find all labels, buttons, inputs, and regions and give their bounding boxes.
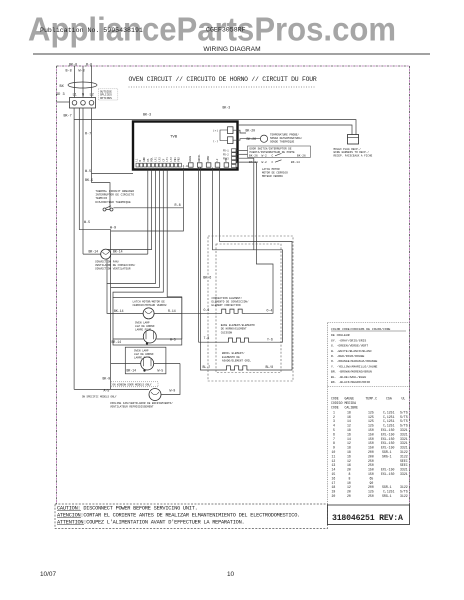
oven lamp L1 [143,330,156,343]
svg-text:BL/8: BL/8 [266,365,274,369]
wire R-8 riser to breaker and W-9 bus [111,168,184,232]
svg-text:ASADO/ELEMENT GRIL: ASADO/ELEMENT GRIL [222,359,251,363]
svg-text:SGR-1: SGR-1 [382,450,392,454]
svg-text:UL: UL [402,397,406,401]
wire latch motor leads [113,312,143,314]
lamp assembly box 1 [113,298,182,346]
svg-text:ELEMENTO DE CONVECCION/: ELEMENTO DE CONVECCION/ [212,300,249,304]
svg-text:14: 14 [347,437,351,441]
cavity outer dashed box [208,236,293,381]
svg-text:14: 14 [332,468,336,472]
svg-text:CONVECTION FAN/: CONVECTION FAN/ [95,260,120,264]
svg-text:CALIBRE: CALIBRE [345,405,358,409]
svg-text:3122: 3122 [400,450,408,454]
svg-text:10: 10 [347,481,351,485]
svg-text:S/TS: S/TS [400,419,408,423]
board right pin stack [232,149,237,168]
svg-text:RECEP. FAISCEAUX A FICHE: RECEP. FAISCEAUX A FICHE [334,155,373,158]
svg-text:THERMAL CIRCUIT BREAKER: THERMAL CIRCUIT BREAKER [95,190,134,193]
svg-text:18: 18 [347,428,351,432]
svg-text:200: 200 [368,485,374,489]
svg-text:5: 5 [333,428,335,432]
svg-text:OPTIONS: OPTIONS [100,97,112,100]
svg-text:ON WINDOW DOOR MODELS ONLY: ON WINDOW DOOR MODELS ONLY [113,384,153,387]
svg-text:12: 12 [347,424,351,428]
svg-text:150: 150 [368,472,374,476]
svg-text:W-9: W-9 [170,388,176,392]
svg-text:GAUGE: GAUGE [345,397,355,401]
svg-text:4: 4 [333,424,335,428]
svg-text:C: C [272,161,274,164]
board bottom pin strip small (P1) [136,163,181,167]
svg-text:SGR-1: SGR-1 [382,485,392,489]
svg-text:BK-26: BK-26 [297,155,306,158]
wire L2 drop from top border [91,66,93,98]
svg-text:CONV: CONV [207,155,210,161]
svg-text:O. -ORANGE/NARANJA/ORANGE: O. -ORANGE/NARANJA/ORANGE [331,359,378,363]
wire pin2 staircase [107,170,152,284]
svg-text:SEEC: SEEC [400,463,408,467]
wire W-9 bus [79,230,110,390]
wire probe BK-20 [233,130,246,133]
wire L1 drop from top border [74,66,76,98]
svg-text:ELEMENTO DE: ELEMENTO DE [222,356,240,359]
wire branch to conv fan [83,253,101,255]
svg-text:BR-14: BR-14 [112,340,122,344]
svg-text:150: 150 [368,428,374,432]
svg-text:N: N [82,94,84,98]
svg-text:CUISSON: CUISSON [221,331,233,334]
wire cooling fan right [161,364,180,395]
oven lamp L2 [141,357,154,370]
svg-text:DE COULEUR: DE COULEUR [331,333,350,337]
svg-text:(+): (+) [213,129,218,133]
svg-text:8: 8 [349,476,351,480]
svg-text:EXL-150: EXL-150 [381,428,394,432]
svg-text:10: 10 [332,450,336,454]
svg-text:DE HORNO/ELEMENT: DE HORNO/ELEMENT [221,327,247,331]
svg-text:C,1251: C,1251 [383,490,395,494]
svg-text:TEMP.C: TEMP.C [366,397,378,401]
latch motor LM1 [143,308,154,319]
svg-text:Y. -YELLOW/AMARILLO/JAUNE: Y. -YELLOW/AMARILLO/JAUNE [331,364,378,368]
svg-text:ELEMENT CONVECTION: ELEMENT CONVECTION [212,304,241,307]
convection fan motor CF1 [101,249,111,259]
svg-text:250: 250 [368,494,374,498]
svg-text:12: 12 [332,459,336,463]
cable clamp BX [68,82,97,88]
svg-text:P5-3: P5-3 [223,157,229,160]
wire BK-7 run to molex [74,120,356,135]
svg-text:250: 250 [368,459,374,463]
svg-text:CODE: CODE [331,405,339,409]
broil element EL3 [224,366,249,370]
wire L2 drop R-7 [91,108,93,183]
molex plug MP1 [348,135,359,145]
svg-text:EXL-150: EXL-150 [381,446,394,450]
svg-text:7: 7 [333,437,335,441]
svg-text:BK-5: BK-5 [85,179,93,183]
svg-text:O-4: O-4 [267,309,273,313]
svg-text:A-5: A-5 [104,388,110,392]
terminal L2 [89,101,94,106]
svg-text:BK-3: BK-3 [223,105,231,109]
svg-text:W-9: W-9 [110,227,116,231]
svg-text:TVB: TVB [170,136,178,140]
svg-text:VENTILATEUR REFROIDISSEMENT: VENTILATEUR REFROIDISSEMENT [110,405,154,408]
svg-text:PB2: PB2 [178,157,181,162]
svg-text:SONDE THERMIQUE: SONDE THERMIQUE [270,140,295,143]
svg-text:MDL: MDL [151,157,154,162]
svg-text:VENTILADOR DE CONVECCION/: VENTILADOR DE CONVECCION/ [95,263,136,267]
svg-text:W-8: W-8 [79,70,85,74]
header rule [33,53,430,55]
svg-text:G. -GREEN/VERDE/VERT: G. -GREEN/VERDE/VERT [331,344,368,348]
board right pin labels [223,150,229,161]
svg-text:19: 19 [332,490,336,494]
wire breaker to riser [113,207,183,209]
svg-text:P5-1: P5-1 [223,150,229,153]
svg-text:20: 20 [347,494,351,498]
svg-text:BROIL ELEMENT/: BROIL ELEMENT/ [222,351,245,355]
svg-text:LF1: LF1 [155,157,158,162]
svg-text:W-5: W-5 [85,170,91,174]
svg-text:LF2: LF2 [158,157,161,162]
svg-text:R-8: R-8 [86,64,92,68]
svg-text:BK-3: BK-3 [143,114,151,118]
svg-text:R. -RED/ROJO/ROUGE: R. -RED/ROJO/ROUGE [331,354,365,358]
door switch symbol [275,153,282,155]
wire N2 drop below block [82,108,84,254]
svg-text:200: 200 [368,454,374,458]
svg-text:EXL-150: EXL-150 [381,468,394,472]
svg-text:S/TS: S/TS [400,424,408,428]
svg-text:GY. -GRAY/GRIS/GRIS: GY. -GRAY/GRIS/GRIS [331,338,366,342]
svg-text:L1: L1 [73,94,77,98]
svg-text:DISJONCTEUR THERMIQUE: DISJONCTEUR THERMIQUE [95,201,131,204]
svg-text:BK-8: BK-8 [69,64,77,68]
svg-text:150: 150 [368,441,374,445]
svg-text:17: 17 [332,481,336,485]
svg-text:J-0: J-0 [183,165,189,168]
wire pin5 staircase [113,170,163,298]
svg-text:ATTENTION:COUPEZ L'ALIMENTATIO: ATTENTION:COUPEZ L'ALIMENTATION AVANT D'… [57,519,244,525]
svg-text:EXL-150: EXL-150 [381,432,394,436]
wire A-5 run to cooling fan [74,388,149,390]
svg-text:BK. -BLACK/NEGRO/NOIR: BK. -BLACK/NEGRO/NOIR [331,380,370,384]
svg-text:O-6: O-6 [204,308,210,312]
svg-text:150: 150 [368,437,374,441]
svg-text:125: 125 [368,490,374,494]
note 3-wire splice option box [98,89,118,100]
svg-text:BK-6: BK-6 [203,276,211,280]
svg-text:SRG-1: SRG-1 [382,454,392,458]
svg-text:ATENCION:CORTAR EL CORIENTE AN: ATENCION:CORTAR EL CORIENTE ANTES DE REA… [57,512,300,518]
svg-text:GD 3: GD 3 [56,93,65,97]
wire board top to molex [238,125,353,135]
svg-text:CONVECTION ELEMENT/: CONVECTION ELEMENT/ [212,296,243,300]
wire long drop to broil element [200,168,224,371]
wire W-5 run to board [92,173,134,175]
svg-text:3321: 3321 [400,472,408,476]
svg-text:8: 8 [349,472,351,476]
svg-text:W-2: W-2 [262,155,267,158]
svg-text:INTERRUPTOR DE CIRCUITO: INTERRUPTOR DE CIRCUITO [95,194,134,197]
svg-text:BL. -BLUE/AZUL/BLEU: BL. -BLUE/AZUL/BLEU [331,375,366,379]
svg-text:LT1: LT1 [166,157,169,162]
svg-text:3: 3 [333,419,335,423]
wire BK-6 long drop to bake element [199,168,227,343]
terminal N [81,101,86,106]
svg-text:B-8: B-8 [66,70,72,74]
svg-text:16: 16 [347,454,351,458]
svg-text:C,1251: C,1251 [383,410,395,414]
wire L1 drop below block [73,108,75,389]
svg-text:3122: 3122 [400,494,408,498]
svg-text:EXL-150: EXL-150 [381,472,394,476]
wire latch row to convection element [182,312,220,314]
svg-text:S/TS: S/TS [400,410,408,414]
svg-text:12: 12 [347,485,351,489]
svg-text:COOLING FAN/VENTILADOR DE ENFR: COOLING FAN/VENTILADOR DE ENFRIAMIENTO/ [110,401,173,405]
svg-text:TEMPERATURE PROBE/: TEMPERATURE PROBE/ [270,133,299,137]
svg-text:EXL-150: EXL-150 [381,441,394,445]
svg-text:16: 16 [347,415,351,419]
svg-text:BK-14: BK-14 [113,249,123,253]
svg-text:OVEN CIRCUIT // CIRCUITO DE HO: OVEN CIRCUIT // CIRCUITO DE HORNO // CIR… [129,76,317,83]
svg-text:CGEF3058RF: CGEF3058RF [206,27,246,34]
svg-text:12: 12 [347,441,351,445]
svg-text:1: 1 [333,410,335,414]
svg-text:COLOR CODE/CODIGOS DE COLOR/CO: COLOR CODE/CODIGOS DE COLOR/CODE [331,327,391,331]
svg-text:BROIL: BROIL [198,154,201,162]
thermal circuit breaker symbol [103,206,113,211]
svg-text:WIRING DIAGRAM: WIRING DIAGRAM [203,46,260,53]
board pin labels (vertical) [135,154,236,162]
svg-text:20: 20 [332,494,336,498]
cooling fan CLF [149,389,161,401]
svg-text:15: 15 [332,472,336,476]
svg-text:MOTEUR VERROU: MOTEUR VERROU [262,175,283,178]
svg-text:PB1: PB1 [174,157,177,162]
wire N drop from top border [82,66,84,98]
svg-text:BAKE ELEMENT/ELEMENTO: BAKE ELEMENT/ELEMENTO [221,323,255,327]
svg-text:3321: 3321 [400,441,408,445]
svg-text:W-5: W-5 [84,221,90,225]
cavity inner dashed box [216,244,281,373]
svg-text:18: 18 [332,485,336,489]
svg-text:13: 13 [332,463,336,467]
svg-text:125: 125 [368,419,374,423]
svg-text:11: 11 [332,454,336,458]
lamp assembly box 2 [125,347,166,374]
svg-text:LATCH MOTOR/MOTOR DE: LATCH MOTOR/MOTOR DE [133,299,166,303]
svg-text:W-5: W-5 [170,337,176,341]
door switch box SW1 [248,146,311,157]
svg-text:150: 150 [368,432,374,436]
svg-text:3321: 3321 [400,437,408,441]
svg-text:9: 9 [333,446,335,450]
svg-text:C,1251: C,1251 [383,419,395,423]
svg-text:3321: 3321 [400,468,408,472]
svg-text:CERROJO/MOTEUR VERROU: CERROJO/MOTEUR VERROU [133,303,167,307]
svg-text:PUERTA/INTERRUPTEUR DE PORTE: PUERTA/INTERRUPTEUR DE PORTE [250,150,296,154]
svg-text:SEEC: SEEC [400,459,408,463]
svg-text:S/TS: S/TS [400,415,408,419]
svg-text:GND: GND [143,157,146,162]
svg-text:R-14: R-14 [168,309,176,313]
svg-text:C,1251: C,1251 [383,415,395,419]
svg-text:125: 125 [368,424,374,428]
svg-text:3321: 3321 [400,428,408,432]
wire lamp1 leads [113,338,143,340]
svg-text:BL-7: BL-7 [203,365,211,369]
svg-text:BK-14: BK-14 [114,309,124,313]
svg-text:W-5: W-5 [158,369,164,373]
svg-text:Publication No. 5995438191: Publication No. 5995438191 [40,27,143,34]
convection element EL1 [220,309,246,313]
wire lamp2 leads [111,363,141,365]
svg-text:EXL-150: EXL-150 [381,437,394,441]
terminal L1 [72,101,77,106]
color code box [328,323,410,387]
wire pin4 staircase [111,170,160,288]
svg-text:BR-14: BR-14 [89,249,99,253]
svg-text:18: 18 [347,450,351,454]
board bottom pin strip large (P2) [189,163,238,167]
svg-text:C: C [272,155,274,158]
svg-text:8: 8 [333,441,335,445]
svg-text:3321: 3321 [400,446,408,450]
svg-text:(-): (-) [213,139,218,143]
svg-text:3321: 3321 [400,432,408,436]
svg-text:250: 250 [368,463,374,467]
svg-text:2: 2 [333,415,335,419]
svg-text:65: 65 [370,476,374,480]
svg-text:3122: 3122 [400,454,408,458]
svg-text:P5-2: P5-2 [223,154,229,157]
latch switch symbol [275,160,282,162]
svg-text:6: 6 [333,432,335,436]
svg-text:TERMICO: TERMICO [95,197,107,200]
svg-text:BR-14: BR-14 [127,369,137,373]
svg-text:BK-7: BK-7 [64,115,72,119]
svg-text:125: 125 [368,410,374,414]
svg-text:20: 20 [347,490,351,494]
svg-text:CSA: CSA [386,397,392,401]
svg-text:16: 16 [332,476,336,480]
svg-text:L2: L2 [90,94,94,98]
svg-text:C,1251: C,1251 [383,424,395,428]
svg-text:20: 20 [347,468,351,472]
svg-text:318046251 REV:A: 318046251 REV:A [332,514,403,523]
svg-text:CODE: CODE [331,397,339,401]
svg-text:BK-14: BK-14 [291,161,300,164]
bake element EL2 [226,338,250,342]
svg-text:125: 125 [368,415,374,419]
svg-text:R-7: R-7 [85,133,91,137]
terminal block TB1 [70,98,96,109]
svg-text:16: 16 [347,432,351,436]
svg-text:MOLEX PLUG RECP./: MOLEX PLUG RECP./ [334,147,362,151]
svg-text:10: 10 [227,571,235,578]
part number box 318046251 REV:A [328,505,410,525]
wire drop to bake right staircase [213,168,283,343]
svg-text:SRG-1: SRG-1 [382,494,392,498]
board probe connector squares [228,127,234,144]
svg-text:BK-26: BK-26 [249,155,258,158]
svg-text:10/07: 10/07 [40,571,56,578]
main diagram border [57,66,410,505]
svg-text:16: 16 [347,463,351,467]
wire probe BK-26 [233,139,261,141]
svg-text:14: 14 [347,419,351,423]
svg-text:7-8: 7-8 [204,336,210,340]
wire drop to broil right staircase [220,168,292,371]
svg-text:18: 18 [347,446,351,450]
wire conv fan right [111,253,148,255]
svg-text:Y-6: Y-6 [267,338,273,342]
svg-text:3122: 3122 [400,485,408,489]
svg-text:12: 12 [347,459,351,463]
svg-text:SONDA DETERMINATURA/: SONDA DETERMINATURA/ [270,136,303,140]
svg-text:150: 150 [368,468,374,472]
svg-text:18: 18 [347,410,351,414]
svg-text:MEDIDA: MEDIDA [345,401,357,405]
wire BK-5 run [92,183,111,210]
svg-text:R-8: R-8 [175,204,181,208]
wire door switch drop right to conv right [245,162,273,313]
svg-text:90: 90 [370,481,374,485]
svg-text:BAKE: BAKE [189,155,192,161]
svg-text:W-2: W-2 [262,161,267,164]
svg-text:BK-26: BK-26 [247,137,257,141]
wires door switch rows [236,149,248,151]
svg-text:W. -WHITE/BLANCO/BLANC: W. -WHITE/BLANCO/BLANC [331,349,372,353]
svg-text:ON SPECIFIC MODELS ONLY: ON SPECIFIC MODELS ONLY [82,396,117,399]
window door note box [111,382,158,387]
wire pin3 staircase [107,170,156,314]
svg-text:CONVECTION VENTILATEUR: CONVECTION VENTILATEUR [95,268,131,271]
table column borders [327,387,329,506]
probe connector bracket [220,130,228,141]
wire pin6 down to lamp box [167,170,182,340]
wire pin1 to conv fan row [147,170,149,255]
ground wire from left border to block [57,101,70,103]
wire door switch drop left [253,158,255,250]
svg-text:S/TS: S/TS [400,490,408,494]
svg-text:BR. -BROWN/MORENO/BRUN: BR. -BROWN/MORENO/BRUN [331,370,372,374]
svg-text:WIRE HARNESS TO RECP./: WIRE HARNESS TO RECP./ [334,150,370,154]
svg-text:200: 200 [368,450,374,454]
svg-text:CODIGO: CODIGO [331,401,343,405]
svg-text:BK-20: BK-20 [246,129,256,133]
wire N drop below block [78,108,80,230]
svg-text:BK-9: BK-9 [103,377,111,381]
temperature probe PRB [260,135,267,142]
svg-text:150: 150 [368,446,374,450]
svg-text:LT2: LT2 [170,157,173,162]
